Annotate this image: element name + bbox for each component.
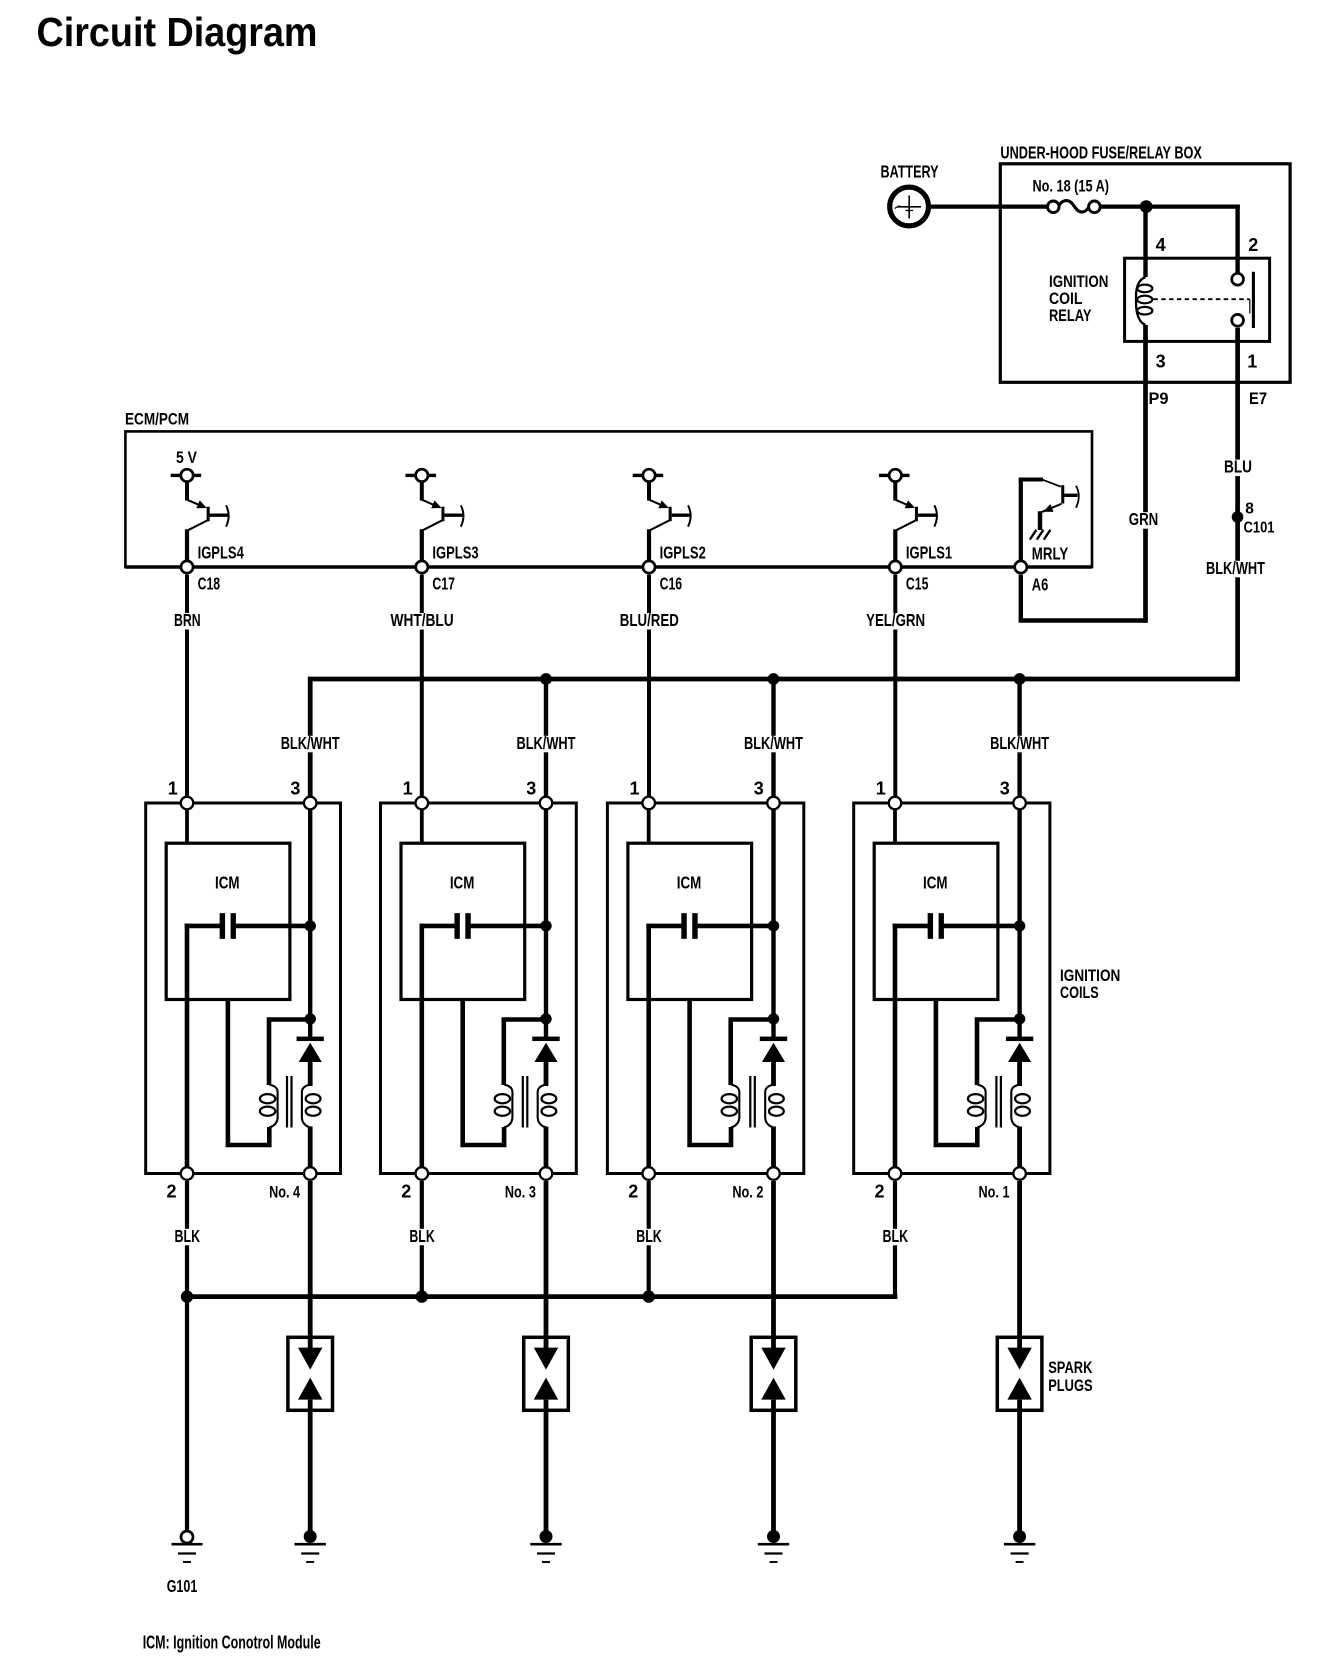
- svg-text:PLUGS: PLUGS: [1048, 1376, 1092, 1395]
- svg-text:BLK/WHT: BLK/WHT: [1206, 558, 1265, 578]
- transformer secondary winding: [1011, 1085, 1030, 1128]
- transformer core: [522, 1076, 524, 1128]
- 5V supply for IGPLS2: [633, 469, 664, 481]
- ICM box (No. 4): [166, 843, 290, 999]
- svg-text:IGNITION: IGNITION: [1049, 272, 1108, 291]
- 5V supply for IGPLS4: [171, 469, 202, 481]
- junction capacitor / pin 3: [540, 920, 551, 931]
- svg-text:1: 1: [876, 779, 886, 799]
- ignition coil No. 2 outer box: [607, 803, 803, 1174]
- wire GRN from relay pin 3 down: [1143, 325, 1148, 623]
- wire BRN from ECM to ignition coil pin 1: [185, 575, 189, 803]
- svg-text:C16: C16: [660, 574, 683, 594]
- svg-text:3: 3: [526, 779, 536, 799]
- label WHT/BLU: [388, 613, 457, 630]
- wire to relay pin 4: [1143, 207, 1147, 277]
- label BLK/WHT (No. 2 feed): [741, 736, 806, 753]
- svg-text:Circuit Diagram: Circuit Diagram: [37, 9, 318, 55]
- wire pin 1 stub into ICM: [893, 803, 897, 845]
- bus junction (coil 3): [643, 1290, 655, 1302]
- ignition coil No. 1 outer box: [854, 803, 1050, 1174]
- bus junction (coil 2): [416, 1290, 428, 1302]
- wire battery to fuse: [931, 205, 1049, 209]
- wire pin 1 stub into ICM: [647, 803, 651, 845]
- wire BLK from coil pin 2: [647, 1181, 651, 1298]
- transformer secondary winding: [302, 1085, 321, 1128]
- svg-text:1: 1: [403, 779, 413, 799]
- wire No. 3 coil to spark plug: [544, 1181, 549, 1351]
- svg-text:C15: C15: [906, 574, 929, 594]
- bus junction at G101 drop: [181, 1290, 193, 1302]
- coil terminal No. 4: [304, 1167, 317, 1180]
- svg-text:3: 3: [1156, 352, 1166, 372]
- diode (secondary): [532, 1037, 559, 1086]
- junction capacitor / pin 3: [1014, 920, 1025, 931]
- svg-text:BLU/RED: BLU/RED: [620, 610, 679, 630]
- wire No. 1 coil to spark plug: [1017, 1181, 1022, 1351]
- transformer core: [286, 1076, 288, 1128]
- connector node 8 C101: [1232, 511, 1244, 523]
- ignition coil No. 4 outer box: [146, 803, 341, 1174]
- svg-text:COILS: COILS: [1060, 983, 1099, 1002]
- capacitor inside ICM: [893, 913, 1020, 939]
- svg-text:2: 2: [166, 1182, 176, 1202]
- svg-text:ICM: ICM: [450, 872, 475, 892]
- wire primary top to pin 3 node: [731, 1020, 774, 1086]
- svg-text:G101: G101: [167, 1576, 198, 1596]
- svg-text:BRN: BRN: [174, 610, 201, 630]
- svg-text:ICM: ICM: [215, 872, 240, 892]
- wire capacitor to pin 2: [419, 924, 424, 1168]
- label GRN: [1126, 512, 1162, 529]
- ECM pin C15: [889, 561, 901, 573]
- ground (spark plug): [758, 1530, 789, 1562]
- transistor IGPLS3: [422, 481, 464, 567]
- svg-text:BLK: BLK: [409, 1226, 435, 1246]
- capacitor inside ICM: [420, 913, 547, 939]
- svg-text:1: 1: [629, 779, 639, 799]
- spark plug (No. 3 cylinder): [524, 1337, 569, 1410]
- svg-text:BLK: BLK: [175, 1226, 201, 1246]
- junction capacitor / pin 3: [768, 920, 779, 931]
- wire spark plug to ground: [1017, 1400, 1022, 1532]
- wire pin 1 stub into ICM: [420, 803, 424, 845]
- wire spark plug to ground: [771, 1400, 776, 1532]
- svg-text:5 V: 5 V: [176, 448, 198, 467]
- coil pin 1: [889, 797, 902, 810]
- ECM pin C17: [416, 561, 428, 573]
- transformer primary winding: [722, 1085, 740, 1128]
- wire ICM output to primary winding: [690, 1000, 731, 1146]
- ground (spark plug): [530, 1530, 561, 1562]
- wire ICM output to primary winding: [936, 1000, 977, 1146]
- ECM pin C18: [181, 561, 193, 573]
- ground (MRLY emitter): [1030, 530, 1051, 540]
- svg-text:No. 2: No. 2: [732, 1183, 763, 1202]
- svg-text:3: 3: [754, 779, 764, 799]
- coil pin 3: [1013, 797, 1026, 810]
- svg-text:IGPLS4: IGPLS4: [198, 542, 244, 562]
- capacitor inside ICM: [646, 913, 773, 939]
- ground (spark plug): [295, 1530, 326, 1562]
- junction capacitor / pin 3: [305, 920, 316, 931]
- wire junction above relay pin 4: [1140, 200, 1153, 213]
- wire secondary to No. 3 terminal: [544, 1127, 549, 1169]
- svg-text:ICM: ICM: [677, 872, 702, 892]
- label BLK/WHT (No. 4 feed): [278, 736, 343, 753]
- wire capacitor to pin 2: [646, 924, 651, 1168]
- diode (secondary): [760, 1037, 787, 1086]
- spark plug (No. 2 cylinder): [751, 1337, 796, 1410]
- label BLK/WHT (No. 3 feed): [514, 736, 579, 753]
- coil pin 1: [642, 797, 655, 810]
- wire BLU from relay pin 1 down: [1235, 328, 1240, 682]
- svg-text:UNDER-HOOD FUSE/RELAY BOX: UNDER-HOOD FUSE/RELAY BOX: [1000, 143, 1202, 163]
- under-hood fuse/relay box enclosure: [1000, 164, 1290, 382]
- svg-text:BLU: BLU: [1224, 457, 1252, 477]
- svg-text:BLK/WHT: BLK/WHT: [281, 733, 340, 753]
- wire to ground G101: [185, 1297, 189, 1532]
- label SPARK PLUGS: [1048, 1358, 1093, 1395]
- coil pin 3: [304, 797, 317, 810]
- diode (secondary): [1006, 1037, 1033, 1086]
- svg-text:3: 3: [290, 779, 300, 799]
- svg-text:1: 1: [1247, 352, 1257, 372]
- svg-text:No. 4: No. 4: [269, 1183, 300, 1202]
- ignition coil No. 3 outer box: [381, 803, 577, 1174]
- 5V supply for IGPLS1: [879, 469, 910, 481]
- transformer secondary winding: [538, 1085, 557, 1128]
- wire BLK from coil pin 2: [185, 1181, 189, 1298]
- wire YEL/GRN from ECM to ignition coil pin 1: [893, 575, 897, 803]
- ground G101: [172, 1531, 203, 1562]
- ground (spark plug): [1004, 1530, 1035, 1562]
- label BRN: [171, 613, 204, 630]
- wire pin 1 stub into ICM: [185, 803, 189, 845]
- svg-text:YEL/GRN: YEL/GRN: [866, 610, 925, 630]
- wire bus to coil pin 3: [1017, 679, 1021, 803]
- wire BLK/WHT power bus: [310, 679, 1237, 803]
- svg-text:ECM/PCM: ECM/PCM: [125, 409, 189, 428]
- wire No. 4 coil to spark plug: [308, 1181, 313, 1351]
- ignition coil relay box: [1125, 258, 1270, 341]
- wire pin 3 drop inside coil: [308, 803, 312, 1038]
- bus junction: [1014, 673, 1026, 685]
- wire primary top to pin 3 node: [269, 1020, 310, 1086]
- svg-text:C18: C18: [198, 574, 221, 594]
- wire capacitor to pin 2: [185, 924, 190, 1168]
- svg-text:SPARK: SPARK: [1048, 1358, 1093, 1377]
- wire primary top to pin 3 node: [504, 1020, 546, 1086]
- ECM/PCM box: [125, 431, 1092, 567]
- coil pin 2: [642, 1167, 655, 1180]
- svg-text:BATTERY: BATTERY: [881, 162, 939, 182]
- svg-text:C17: C17: [432, 574, 455, 594]
- label BLK: [172, 1229, 204, 1246]
- svg-text:2: 2: [1248, 235, 1258, 255]
- svg-text:BLK: BLK: [636, 1226, 662, 1246]
- ICM box (No. 1): [874, 843, 998, 999]
- wire BLU/RED from ECM to ignition coil pin 1: [647, 575, 651, 803]
- svg-text:MRLY: MRLY: [1032, 544, 1069, 564]
- svg-text:P9: P9: [1149, 389, 1169, 408]
- wire primary top to pin 3 node: [977, 1020, 1020, 1086]
- junction diode / primary / pin 3: [540, 1013, 551, 1024]
- wire spark plug to ground: [308, 1400, 313, 1532]
- coil pin 1: [416, 797, 429, 810]
- coil pin 1: [181, 797, 194, 810]
- svg-text:2: 2: [874, 1182, 884, 1202]
- 5V supply for IGPLS3: [406, 469, 437, 481]
- battery: [890, 187, 929, 226]
- svg-text:RELAY: RELAY: [1049, 306, 1092, 325]
- wire BLK from coil pin 2: [420, 1181, 424, 1298]
- label YEL/GRN: [863, 613, 928, 630]
- wire BLK from coil pin 2: [893, 1181, 897, 1298]
- wire bus to coil pin 3: [544, 679, 548, 803]
- svg-text:C101: C101: [1244, 520, 1275, 537]
- transformer primary winding: [968, 1085, 986, 1128]
- fuse No. 18 (15 A): [1048, 201, 1101, 213]
- transistor IGPLS1: [895, 481, 937, 567]
- junction diode / primary / pin 3: [305, 1013, 316, 1024]
- junction diode / primary / pin 3: [768, 1013, 779, 1024]
- wire bus to coil pin 3: [771, 679, 775, 803]
- svg-text:2: 2: [628, 1182, 638, 1202]
- ICM box (No. 2): [628, 843, 752, 999]
- svg-text:No. 3: No. 3: [505, 1183, 536, 1202]
- wire fuse to relay pins 4 and 2: [1100, 205, 1240, 209]
- svg-text:No. 1: No. 1: [979, 1183, 1010, 1202]
- svg-text:2: 2: [401, 1182, 411, 1202]
- transformer secondary winding: [765, 1085, 784, 1128]
- wire WHT/BLU from ECM to ignition coil pin 1: [420, 575, 424, 803]
- transformer core: [995, 1076, 997, 1128]
- transformer primary winding: [495, 1085, 513, 1128]
- label BLU: [1221, 460, 1255, 477]
- wire A6 to GRN riser: [1021, 575, 1147, 621]
- svg-text:WHT/BLU: WHT/BLU: [391, 610, 454, 630]
- relay coil (pins 4-3): [1136, 277, 1152, 325]
- transformer primary winding: [260, 1085, 278, 1128]
- label BLK/WHT (right): [1203, 561, 1268, 578]
- svg-text:4: 4: [1156, 235, 1166, 255]
- ECM pin C16: [643, 561, 655, 573]
- coil pin 2: [181, 1167, 194, 1180]
- wire secondary to No. 1 terminal: [1017, 1127, 1022, 1169]
- diode (secondary): [297, 1037, 324, 1086]
- svg-text:BLK/WHT: BLK/WHT: [744, 733, 803, 753]
- coil pin 3: [767, 797, 780, 810]
- relay actuation dashed link: [1154, 298, 1250, 300]
- capacitor inside ICM: [185, 913, 311, 939]
- ECM pin A6: [1015, 561, 1027, 573]
- svg-text:1: 1: [168, 779, 178, 799]
- coil terminal No. 2: [767, 1167, 780, 1180]
- svg-text:BLK/WHT: BLK/WHT: [517, 733, 576, 753]
- wire spark plug to ground: [544, 1400, 549, 1532]
- relay contact (pins 2-1): [1232, 272, 1254, 328]
- coil pin 3: [540, 797, 553, 810]
- wire pin 3 drop inside coil: [544, 803, 548, 1038]
- junction diode / primary / pin 3: [1014, 1013, 1025, 1024]
- svg-text:ICM: ICM: [923, 872, 948, 892]
- label BLK: [406, 1229, 438, 1246]
- transistor IGPLS4: [187, 481, 229, 567]
- svg-text:IGPLS2: IGPLS2: [660, 542, 706, 562]
- wire capacitor to pin 2: [893, 924, 898, 1168]
- wire pin 3 drop inside coil: [771, 803, 775, 1038]
- svg-text:ICM: Ignition Conotrol Module: ICM: Ignition Conotrol Module: [143, 1632, 321, 1652]
- spark plug (No. 1 cylinder): [997, 1337, 1042, 1410]
- label IGNITION COILS: [1060, 966, 1120, 1002]
- wire pin 3 drop inside coil: [1017, 803, 1021, 1038]
- wire ICM output to primary winding: [228, 1000, 269, 1146]
- wire secondary to No. 4 terminal: [308, 1127, 313, 1169]
- bus junction: [768, 673, 780, 685]
- svg-text:BLK/WHT: BLK/WHT: [990, 733, 1049, 753]
- transformer core: [749, 1076, 751, 1128]
- transistor MRLY: [1019, 480, 1079, 568]
- label BLK: [633, 1229, 665, 1246]
- wire secondary to No. 2 terminal: [771, 1127, 776, 1169]
- spark plug (No. 4 cylinder): [288, 1337, 333, 1410]
- coil pin 2: [416, 1167, 429, 1180]
- coil terminal No. 3: [540, 1167, 553, 1180]
- svg-text:COIL: COIL: [1049, 289, 1083, 308]
- svg-text:BLK: BLK: [883, 1226, 909, 1246]
- wire No. 2 coil to spark plug: [771, 1181, 776, 1351]
- svg-text:IGPLS3: IGPLS3: [432, 542, 478, 562]
- transistor IGPLS2: [649, 481, 691, 567]
- wire BLK ground bus: [187, 1294, 895, 1297]
- svg-text:8: 8: [1245, 501, 1254, 518]
- ICM box (No. 3): [401, 843, 525, 999]
- svg-text:A6: A6: [1032, 575, 1049, 595]
- wire ICM output to primary winding: [463, 1000, 504, 1146]
- svg-text:No. 18 (15 A): No. 18 (15 A): [1033, 176, 1110, 195]
- wire to relay pin 2: [1235, 205, 1239, 274]
- svg-text:GRN: GRN: [1129, 509, 1159, 529]
- coil terminal No. 1: [1013, 1167, 1026, 1180]
- label BLK/WHT (No. 1 feed): [987, 736, 1052, 753]
- label BLU/RED: [617, 613, 682, 630]
- svg-text:E7: E7: [1249, 389, 1267, 408]
- label IGNITION COIL RELAY: [1049, 272, 1108, 325]
- label BLK: [880, 1229, 912, 1246]
- svg-text:IGPLS1: IGPLS1: [906, 542, 952, 562]
- coil pin 2: [889, 1167, 902, 1180]
- bus junction: [540, 673, 552, 685]
- svg-text:3: 3: [1000, 779, 1010, 799]
